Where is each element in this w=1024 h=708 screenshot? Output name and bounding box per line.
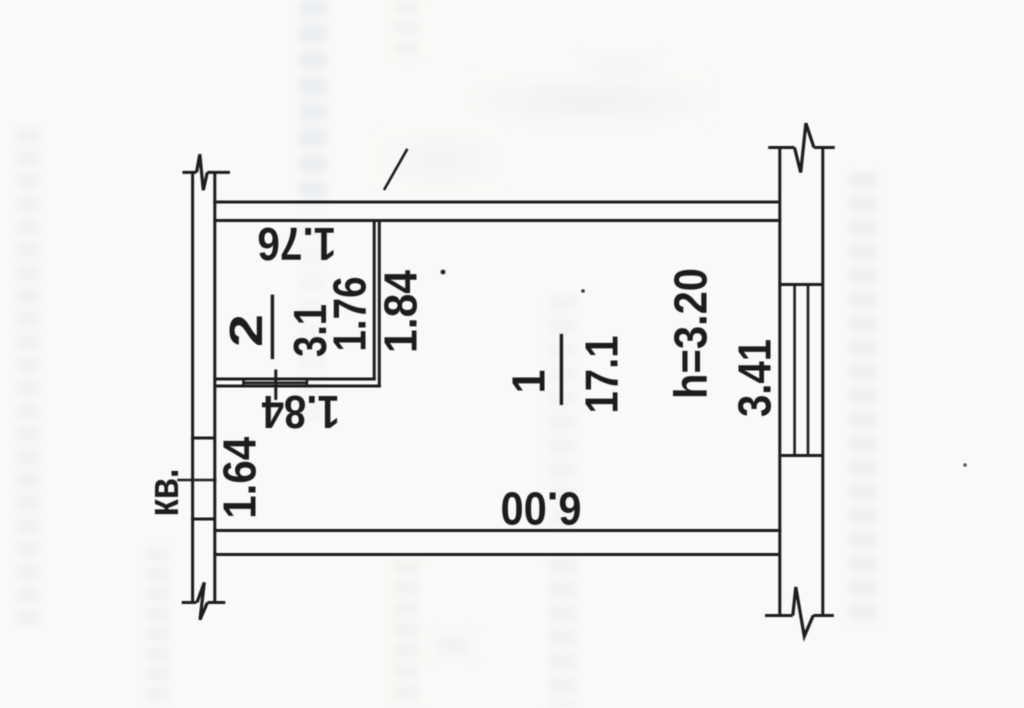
fraction bar room 2 xyxy=(271,295,274,360)
wall left inner line xyxy=(213,173,216,603)
speck dot a xyxy=(441,270,446,275)
wall top inner line xyxy=(215,219,782,222)
partition room2 right line b xyxy=(378,221,381,388)
leader line kv xyxy=(177,479,216,482)
dimension tick partition center xyxy=(274,370,277,400)
dimension tick left wall upper xyxy=(191,437,216,440)
svg-text:2: 2 xyxy=(220,314,272,347)
door jamb tick right xyxy=(306,380,309,388)
speck dot right margin xyxy=(963,463,967,467)
window top edge xyxy=(780,283,823,286)
door jamb tick left xyxy=(242,380,245,388)
break cap top-left xyxy=(182,171,230,174)
window pane line 2 xyxy=(807,285,810,456)
svg-text:3.41: 3.41 xyxy=(729,339,781,417)
wall top outer line xyxy=(213,201,780,204)
svg-text:1.76: 1.76 xyxy=(324,277,376,352)
window pane line 1 xyxy=(793,285,796,456)
wall left outer line xyxy=(191,172,194,602)
svg-text:h=3.20: h=3.20 xyxy=(665,268,717,399)
door sill line xyxy=(244,381,307,384)
svg-text:1.64: 1.64 xyxy=(213,436,265,518)
speck dot b xyxy=(581,289,585,293)
svg-text:6.00: 6.00 xyxy=(501,482,582,534)
break zigzag bottom-left xyxy=(197,582,207,619)
wall right outer line xyxy=(821,148,824,616)
window bottom edge xyxy=(780,454,823,457)
svg-text:1.76: 1.76 xyxy=(257,218,336,270)
partition room2 bottom line b xyxy=(216,385,381,388)
leader diagonal top xyxy=(384,149,407,190)
wall right inner line xyxy=(778,148,781,616)
break cap bottom-left xyxy=(182,601,226,604)
dimension tick left wall lower xyxy=(191,518,216,521)
wall bottom outer line xyxy=(214,553,780,556)
wall bottom inner line xyxy=(215,529,782,532)
break cap bottom-right xyxy=(765,614,834,617)
break zigzag top-right xyxy=(795,123,814,172)
partition room2 right line a xyxy=(373,221,376,381)
svg-text:кв.: кв. xyxy=(139,469,188,517)
svg-text:1.84: 1.84 xyxy=(261,386,339,438)
break zigzag top-left xyxy=(197,154,208,190)
svg-text:1: 1 xyxy=(503,370,555,394)
break cap top-right xyxy=(768,146,835,149)
fraction bar room 1 xyxy=(560,334,563,405)
break zigzag bottom-right xyxy=(793,587,813,636)
svg-text:1.84: 1.84 xyxy=(375,270,427,353)
svg-text:17.1: 17.1 xyxy=(576,336,628,414)
faint bleed-through bands (background staining) xyxy=(16,128,40,625)
partition room2 bottom line a xyxy=(216,378,376,381)
